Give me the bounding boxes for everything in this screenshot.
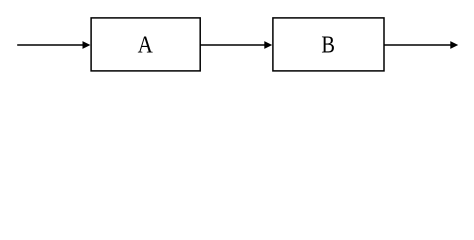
svg-text:A: A: [138, 31, 154, 58]
wire input arrow into block A: [17, 41, 90, 49]
block A: [91, 18, 200, 71]
block B: [273, 18, 384, 71]
label B: [321, 31, 335, 58]
wire output arrow from block B: [384, 41, 458, 49]
svg-text:B: B: [321, 31, 335, 58]
wire arrow from block A to block B: [200, 41, 272, 49]
label A: [138, 31, 154, 58]
